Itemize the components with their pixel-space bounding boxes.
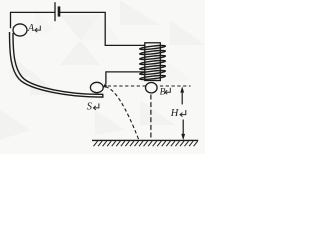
svg-text:H: H bbox=[170, 108, 180, 119]
svg-text:A: A bbox=[27, 23, 35, 34]
svg-text:S: S bbox=[87, 101, 93, 112]
